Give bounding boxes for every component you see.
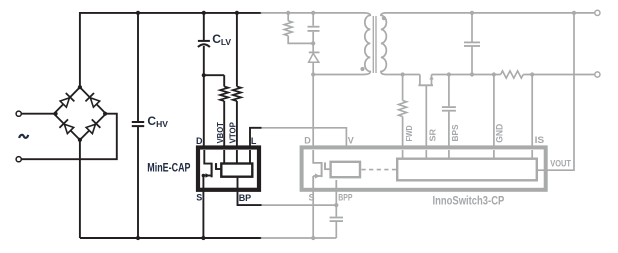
capacitor output <box>464 13 480 75</box>
capacitor snubber <box>308 13 320 44</box>
bridge rectifier BR1 <box>54 85 108 142</box>
svg-text:MinE-CAP: MinE-CAP <box>147 162 190 174</box>
svg-text:VTOP: VTOP <box>228 122 238 143</box>
phase dot primary <box>360 67 364 71</box>
node output cap top <box>470 11 474 15</box>
node snubber R <box>286 11 290 15</box>
SR MOSFET <box>418 75 433 150</box>
wire BP pin <box>238 189 262 205</box>
node top rail / CHV <box>136 11 140 15</box>
wire AC upper input <box>21 113 55 115</box>
MinE-CAP controller box <box>221 164 252 177</box>
secondary top rail <box>386 12 595 14</box>
AC input terminal upper <box>16 111 21 116</box>
wire drain to primary <box>313 74 364 76</box>
AC input terminal lower <box>16 157 21 162</box>
phase dot secondary <box>382 16 386 20</box>
wire bridge positive to top rail <box>80 13 262 87</box>
node top rail / CLV <box>202 11 206 15</box>
bottom rail gray <box>261 237 337 239</box>
dashed link <box>362 169 397 171</box>
node S rail <box>311 236 315 240</box>
svg-text:VBOT: VBOT <box>215 121 225 143</box>
svg-text:IS: IS <box>535 135 545 145</box>
svg-text:VOUT: VOUT <box>550 159 571 169</box>
node VOUT top rail <box>572 11 576 15</box>
svg-text:V: V <box>348 135 354 145</box>
svg-text:BPP: BPP <box>338 192 352 202</box>
wire L to V link <box>262 128 347 149</box>
node FWD <box>401 72 405 76</box>
wire BPP <box>335 190 337 217</box>
capacitor BPS <box>442 75 456 150</box>
resistor FWD <box>402 75 404 101</box>
node BPS <box>447 72 451 76</box>
transformer T1 <box>360 13 386 75</box>
node drain <box>311 72 315 76</box>
secondary return line <box>386 74 420 76</box>
node CLV-D-RVBOT <box>202 73 206 77</box>
capacitor BPP <box>330 218 343 239</box>
svg-text:SR: SR <box>427 129 437 142</box>
InnoSwitch internal stubs <box>336 150 547 190</box>
wire IS <box>531 75 533 150</box>
resistor snubber <box>287 13 289 21</box>
wire bridge negative down <box>79 140 81 238</box>
node snubber RC <box>311 41 315 45</box>
wire GND <box>493 75 495 150</box>
svg-text:S: S <box>309 192 315 202</box>
wire VOUT riser <box>548 13 575 170</box>
capacitor CLV <box>198 13 210 75</box>
wire BP to BPP link <box>262 204 337 206</box>
svg-text:D: D <box>304 135 311 145</box>
node S / bottom rail <box>201 236 205 240</box>
svg-text:BPS: BPS <box>450 124 460 141</box>
AC source symbol <box>19 135 28 138</box>
bottom rail (primary return) <box>80 237 262 239</box>
wire CLV to D pin <box>203 75 205 149</box>
MinE-CAP internal stubs <box>224 150 250 189</box>
top rail gray <box>261 12 364 14</box>
wire AC lower input <box>21 114 117 160</box>
svg-text:BP: BP <box>239 193 252 203</box>
InnoSwitch internal MOSFET <box>313 150 329 190</box>
svg-text:D: D <box>196 136 203 146</box>
node BPP link <box>334 203 338 207</box>
svg-text:CHV: CHV <box>147 114 168 129</box>
InnoSwitch primary controller box <box>331 162 360 177</box>
svg-text:L: L <box>251 136 257 146</box>
wire S pin <box>202 190 204 238</box>
svg-text:GND: GND <box>494 124 504 143</box>
output terminal lower <box>595 72 600 77</box>
svg-text:CLV: CLV <box>212 32 231 47</box>
diode clamp <box>309 43 320 74</box>
node snubber C <box>311 11 315 15</box>
node IS <box>530 72 534 76</box>
MinE-CAP internal MOSFET <box>202 150 221 190</box>
wire L pin to link <box>250 128 262 149</box>
output terminal upper <box>595 10 600 15</box>
capacitor CHV <box>132 13 144 238</box>
resistor current sense <box>501 71 524 78</box>
MinE-CAP U1 <box>198 148 259 190</box>
resistor RVBOT <box>223 75 225 86</box>
wire to RVBOT <box>204 74 224 76</box>
svg-text:FWD: FWD <box>404 125 414 141</box>
node top rail / RVTOP <box>235 11 239 15</box>
node output cap bottom <box>470 72 474 76</box>
resistor RVTOP <box>236 13 238 87</box>
svg-text:InnoSwitch3-CP: InnoSwitch3-CP <box>433 196 505 208</box>
wire drain to D pin <box>312 75 314 150</box>
svg-text:S: S <box>196 192 202 202</box>
InnoSwitch secondary controller box <box>397 159 537 181</box>
wire S InnoSwitch <box>312 190 314 238</box>
node GND <box>492 72 496 76</box>
InnoSwitch3-CP U2 <box>302 147 546 189</box>
node bottom rail / CHV <box>136 236 140 240</box>
